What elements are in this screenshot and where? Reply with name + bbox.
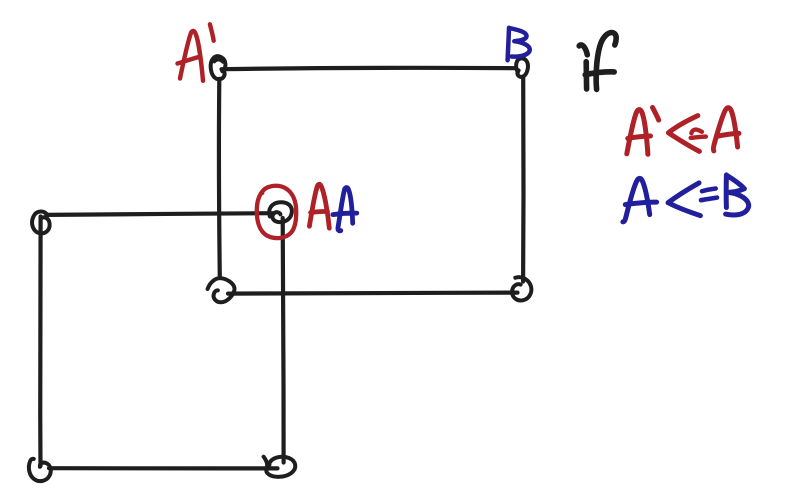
formula blue less-than bbox=[668, 183, 700, 216]
formula red less-than bbox=[668, 116, 699, 152]
upper rectangle bottom edge wire bbox=[228, 293, 518, 294]
lower rectangle top edge wire bbox=[47, 213, 275, 215]
corner loop upper-rect top-left bbox=[211, 56, 226, 79]
red circle highlight around node A bbox=[257, 186, 296, 238]
corner loop upper-rect bottom-right (spiral) bbox=[512, 277, 531, 300]
formula blue A bbox=[623, 178, 657, 221]
formula red A1 bbox=[627, 110, 651, 155]
corner loop upper-rect bottom-left (D with tail) bbox=[208, 278, 235, 302]
lower rectangle left edge wire bbox=[38, 217, 43, 467]
formula red A2 bbox=[713, 108, 739, 151]
corner loop lower-rect top-left (circle) bbox=[32, 212, 50, 234]
word "if" (black) bbox=[579, 33, 616, 90]
corner loop upper-rect top-right bbox=[516, 58, 528, 77]
corner loop upper-rect top-left inner stroke bbox=[214, 60, 223, 62]
label A (red) at node bbox=[309, 184, 329, 228]
upper rectangle left edge wire bbox=[217, 79, 222, 278]
label A' (red) at upper-rect top-left bbox=[178, 24, 214, 81]
formula blue B bbox=[726, 175, 749, 215]
formula red equals squiggle bbox=[691, 130, 706, 138]
corner loop lower-rect bottom-right (oval with tail) bbox=[264, 457, 296, 477]
formula blue equals bbox=[701, 189, 717, 201]
node loop lower-rect top-right corner (point A) bbox=[269, 202, 292, 222]
lower rectangle bottom edge wire bbox=[49, 466, 278, 470]
upper rectangle top edge wire bbox=[222, 68, 516, 69]
lower rectangle right edge wire bbox=[281, 218, 286, 463]
upper rectangle right edge wire bbox=[521, 77, 526, 282]
formula red prime bbox=[653, 107, 659, 120]
label B (blue) at upper-rect top-right bbox=[508, 28, 530, 61]
label A (blue) at node bbox=[333, 188, 357, 231]
corner loop lower-rect bottom-left (c-curl) bbox=[29, 459, 51, 481]
